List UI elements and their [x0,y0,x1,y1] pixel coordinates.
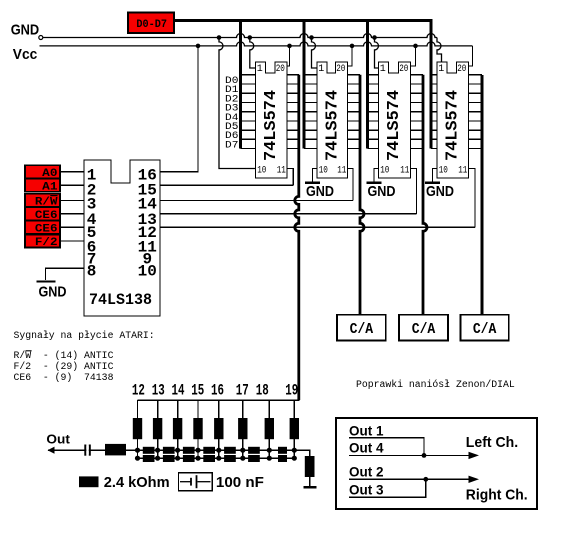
svg-text:R/W - (14) ANTIC: R/W - (14) ANTIC [14,350,114,361]
wire U1 pin11 CLK to 74LS138 output [287,169,293,186]
pin labels D0-D7 at U1 inputs [225,76,238,152]
resistor 2R4 (2.4k) vertical bit 17 [238,418,247,439]
wire U2 pin10 to ground symbol [313,169,318,183]
resistor 2.4k parallel pair between node 13 and 14 [163,447,175,462]
ground symbol for 74LS138 [36,282,66,301]
svg-text:11: 11 [337,166,346,177]
U4 input pin stubs (D inputs) [431,75,437,149]
wire U2 output bus vertical down to C/A converter 1 [360,75,364,316]
svg-text:11: 11 [458,166,467,177]
svg-text:Vcc: Vcc [13,46,38,63]
node junction column 13 [155,448,160,461]
wire drop pin 13 [157,400,159,418]
svg-text:CE6: CE6 [35,224,58,236]
U2 output pin stubs (Q outputs) [348,75,361,149]
node junction column 14 [175,448,180,461]
resistor 2.4k parallel pair between node 17 and 18 [248,447,260,462]
IC U5 74LS138 outline [84,160,160,316]
wire summing rail (lower) [138,457,295,459]
signal box CE6 (pin 5) [25,221,84,236]
svg-text:A1: A1 [42,181,58,193]
svg-text:20: 20 [399,64,408,75]
wire resistor to node 13 [157,439,159,450]
svg-text:15: 15 [191,382,204,400]
svg-text:Out 1: Out 1 [349,424,384,439]
wire U3 pin20 Vcc drop [413,44,418,49]
signal box R/W (pin 3) [25,194,84,209]
C/A converter block 1 [337,315,386,341]
svg-text:C/A: C/A [473,321,497,338]
IC U3 74LS574 outline [379,62,411,178]
wire U1 pin1 OE to GND rail (hop over Vcc) [248,35,253,40]
node junction column 16 [216,448,221,461]
wire resistor to node 17 [242,439,244,450]
wire 74LS138 pin8 to ground [46,268,85,280]
74LS138 pin numbers [87,167,157,281]
svg-text:100 nF: 100 nF [216,474,264,491]
svg-text:14: 14 [172,382,185,400]
svg-text:18: 18 [256,382,269,400]
wire 74LS138 pin16 to Vcc rail [196,44,201,49]
wire U4 output bus vertical down to C/A converter 3 [481,75,484,316]
svg-text:GND: GND [426,183,454,200]
wire Vcc rail (top) [40,42,473,46]
ground symbol for U4 [425,183,454,200]
capacitor series (output coupling) [85,445,90,456]
svg-text:GND: GND [306,183,334,200]
svg-text:74LS574: 74LS574 [443,90,462,161]
wire U3 pin1 OE to GND rail (hop over Vcc) [372,35,377,40]
wire ladder top rail from U1 outputs [138,399,300,401]
svg-text:2.4 kOhm: 2.4 kOhm [104,474,170,491]
wire drop pin 18 [268,400,270,418]
wire data bus drop for U2 (thick vertical) [303,19,306,148]
svg-text:C/A: C/A [412,321,436,338]
svg-text:F/2: F/2 [35,237,58,249]
wire terminating resistor to ground [309,477,311,487]
wire resistor to node 18 [268,439,270,450]
svg-text:GND: GND [39,284,67,301]
svg-text:11: 11 [277,166,286,177]
svg-text:D0-D7: D0-D7 [136,19,167,31]
node open-circle at GND rail start [39,36,43,40]
wire drop pin 17 [242,400,244,418]
node junction column 19 [292,448,297,461]
wire drop pin 19 [293,400,295,418]
wire Out 4 to Left Ch arrow [349,452,479,459]
signal box A1 (pin 2) [25,179,84,194]
wire U4 pin10 to ground symbol [433,169,438,183]
svg-text:Poprawki naniósł Zenon/DIAL: Poprawki naniósł Zenon/DIAL [356,379,515,390]
wire summing rail (upper) [48,449,310,451]
svg-text:1: 1 [380,64,386,75]
wire data bus drop for U4 (thick vertical) [430,19,433,148]
svg-text:CE6 - (9) 74138: CE6 - (9) 74138 [14,372,114,383]
U1 output pin stubs (Q outputs) [287,75,299,149]
U3 output pin stubs (Q outputs) [411,75,424,149]
svg-text:19: 19 [285,382,298,400]
wire U3 output bus vertical down to C/A converter 2 [423,75,427,316]
wire U4 pin11 CLK to 74LS138 output [469,169,476,228]
svg-text:20: 20 [336,64,345,75]
wire U3 pin10 to ground symbol [374,169,379,183]
svg-text:Right Ch.: Right Ch. [466,486,528,503]
signal box F/2 (pin 6) [25,235,84,250]
svg-text:C/A: C/A [350,321,374,338]
wire U2 pin1 OE to GND rail (hop over Vcc) [309,35,314,40]
resistor 2R4 (2.4k) vertical bit 16 [214,418,223,439]
output mapping box [336,418,537,509]
wire drop pin 12 [137,400,139,418]
resistor 2.4k parallel pair between node 18 and 19 [278,447,287,462]
wire drop pin 16 [218,400,220,418]
svg-text:12: 12 [132,382,145,400]
svg-text:10: 10 [138,263,157,281]
svg-text:Out 4: Out 4 [349,441,384,456]
svg-text:74LS574: 74LS574 [323,90,342,161]
wire U1 pin20 Vcc drop [287,44,292,49]
wire right end of rail down to terminating resistor [294,450,310,456]
wire U2 pin20 Vcc drop [350,44,355,49]
IC U1 74LS574 outline [256,62,288,178]
signal box CE6 (pin 4) [25,207,84,222]
U2 input pin stubs (D inputs) [304,75,317,149]
svg-text:74LS138: 74LS138 [89,291,152,309]
note table R/W F/2 CE6 [14,350,114,383]
node junction column 15 [195,448,200,461]
IC U4 74LS574 outline [437,62,469,178]
svg-text:13: 13 [152,382,165,400]
node junction column 18 [267,448,272,461]
U1 input pin stubs (D inputs) [241,75,256,149]
svg-text:10: 10 [319,166,328,177]
wire drop pin 15 [197,400,199,418]
wire 74LS138 pin15 to U1 CLK [160,184,293,186]
resistor 2.4k parallel pair between node 12 and 13 [143,447,155,462]
svg-text:F/2 - (29) ANTIC: F/2 - (29) ANTIC [14,361,114,372]
wire Out 1 [349,438,424,456]
resistor 2.4k parallel pair between node 14 and 15 [183,447,195,462]
wire GND rail (top) [43,34,437,38]
resistor 2.4k parallel pair between node 15 and 16 [203,447,215,462]
legend capacitor sample box [179,473,213,491]
svg-text:20: 20 [276,64,285,75]
resistor 2R4 (2.4k) vertical bit 19 [290,418,299,439]
resistor 2R4 (2.4k) vertical bit 18 [265,418,274,439]
wire resistor to node 15 [197,439,199,450]
bus label D0-D7 (red box) [128,13,174,34]
resistor 2.4k series at output [105,444,126,456]
C/A converter block 3 [461,315,509,341]
svg-text:16: 16 [211,382,224,400]
wire resistor to node 12 [137,439,139,450]
resistor 2R4 (2.4k) vertical bit 12 [133,418,142,439]
IC U2 74LS574 outline [317,62,348,178]
svg-text:10: 10 [257,166,266,177]
U4 output pin stubs (Q outputs) [469,75,483,149]
resistor 2R4 (2.4k) vertical bit 14 [173,418,182,439]
svg-text:GND: GND [368,183,396,200]
wire 74LS138 pin14 to U2 CLK [160,199,353,201]
svg-text:GND: GND [11,21,40,38]
ground symbol for U2 [305,183,334,200]
wire U3 pin11 CLK to 74LS138 output [411,169,417,214]
wire resistor to node 14 [177,439,179,450]
resistor 2R4 (2.4k) vertical bit 13 [153,418,162,439]
svg-text:Sygnały na płycie ATARI:: Sygnały na płycie ATARI: [14,330,155,341]
wire data bus drop for U3 (thick vertical) [366,19,369,148]
svg-text:Out 2: Out 2 [349,465,384,480]
wire resistor to node 16 [218,439,220,450]
U3 input pin stubs (D inputs) [368,75,379,149]
wire 74LS138 pin13 to U3 CLK [160,213,417,215]
wire U1 pin10 GND up to GND rail (hop over Vcc) [217,35,222,40]
wire 74LS138 pin12 to U4 CLK [160,226,475,228]
pin number labels 12..19 above ladder [132,382,298,400]
wire Out 2 to Right Ch arrow [349,476,479,483]
svg-text:D7: D7 [225,141,238,152]
ground symbol for U3 [367,183,396,200]
legend resistor sample (black box) [79,476,99,487]
svg-text:Out: Out [46,432,70,447]
wire resistor to node 19 [293,439,295,450]
output arrow Out (left) [48,447,55,454]
resistor 2.4k parallel pair between node 16 and 17 [224,447,236,462]
svg-text:1: 1 [318,64,324,75]
wire data bus drop for U1 (thick vertical) [239,19,242,148]
svg-text:8: 8 [87,263,97,281]
wire drop pin 14 [177,400,179,418]
ground symbol at ladder end [303,486,316,488]
wire U2 pin11 CLK to 74LS138 output [348,169,354,201]
wire Out 3 joining Out 2 [349,479,426,497]
wire data bus (thick horizontal) [174,19,432,22]
svg-text:10: 10 [380,166,389,177]
node junction column 17 [240,448,245,461]
svg-text:17: 17 [236,382,249,400]
wire U1 output bus vertical (thick, hops over CLK lines, down to R-2R ladder) [295,75,299,400]
svg-text:74LS574: 74LS574 [262,90,281,161]
svg-text:74LS574: 74LS574 [385,90,404,161]
svg-text:10: 10 [439,166,448,177]
svg-text:Out 3: Out 3 [349,482,384,497]
signal box A0 (pin 1) [25,165,84,180]
node junction column 12 [135,448,140,461]
resistor 2R4 (2.4k) vertical bit 15 [193,418,202,439]
resistor 2.4k terminating to ground [305,456,315,477]
svg-text:20: 20 [457,64,466,75]
C/A converter block 2 [399,315,448,341]
svg-text:1: 1 [257,64,263,75]
svg-text:1: 1 [438,64,444,75]
wire U4 pin20 Vcc drop [469,46,473,66]
wire U4 pin1 OE to GND rail (hop over Vcc) [437,38,442,63]
svg-text:Left Ch.: Left Ch. [466,434,518,451]
svg-text:11: 11 [400,166,409,177]
